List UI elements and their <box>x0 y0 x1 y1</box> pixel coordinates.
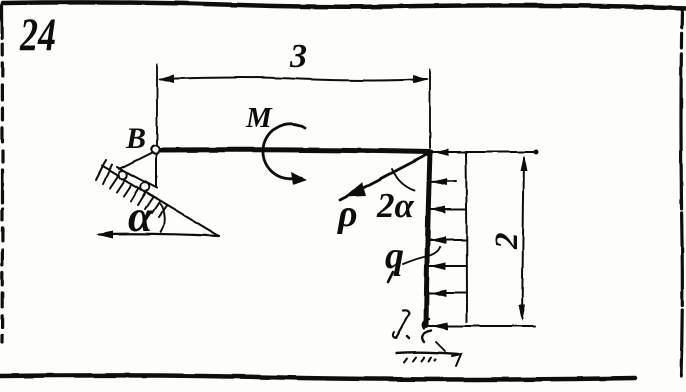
svg-text:M: M <box>245 102 273 134</box>
svg-text:2α: 2α <box>376 186 415 225</box>
svg-text:3: 3 <box>289 38 307 75</box>
svg-text:q: q <box>385 235 404 277</box>
svg-text:24: 24 <box>19 9 56 61</box>
svg-text:α: α <box>128 192 153 241</box>
svg-text:2: 2 <box>489 233 525 251</box>
svg-text:B: B <box>125 122 146 155</box>
svg-text:ρ: ρ <box>337 193 358 235</box>
